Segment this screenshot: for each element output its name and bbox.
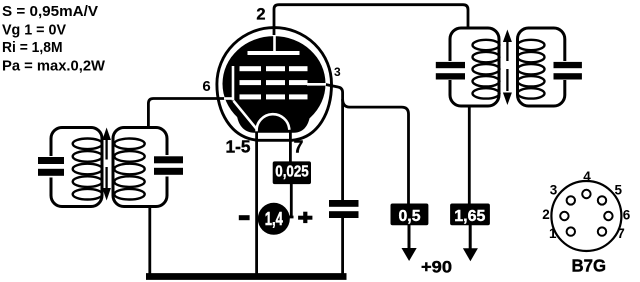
svg-text:+90: +90: [421, 257, 452, 276]
svg-text:1,4: 1,4: [265, 208, 283, 229]
svg-text:1: 1: [549, 226, 557, 241]
svg-text:0,025: 0,025: [275, 164, 309, 181]
svg-text:2: 2: [256, 5, 265, 23]
svg-text:6: 6: [623, 207, 631, 222]
svg-text:Vg 1 = 0V: Vg 1 = 0V: [2, 22, 66, 39]
svg-text:3: 3: [334, 65, 341, 79]
svg-text:5: 5: [614, 183, 622, 198]
svg-text:0,5: 0,5: [399, 208, 421, 225]
svg-text:1-5: 1-5: [226, 137, 251, 157]
svg-text:B7G: B7G: [572, 256, 607, 276]
svg-text:1,65: 1,65: [454, 208, 485, 225]
svg-text:2: 2: [542, 207, 550, 222]
svg-text:7: 7: [617, 226, 625, 241]
svg-text:Pa = max.0,2W: Pa = max.0,2W: [2, 57, 106, 74]
svg-text:3: 3: [550, 183, 558, 198]
svg-text:S = 0,95mA/V: S = 0,95mA/V: [2, 3, 98, 20]
svg-text:Ri = 1,8M: Ri = 1,8M: [2, 39, 62, 56]
svg-text:7: 7: [294, 137, 304, 157]
svg-text:4: 4: [583, 169, 591, 184]
svg-text:6: 6: [202, 78, 210, 95]
